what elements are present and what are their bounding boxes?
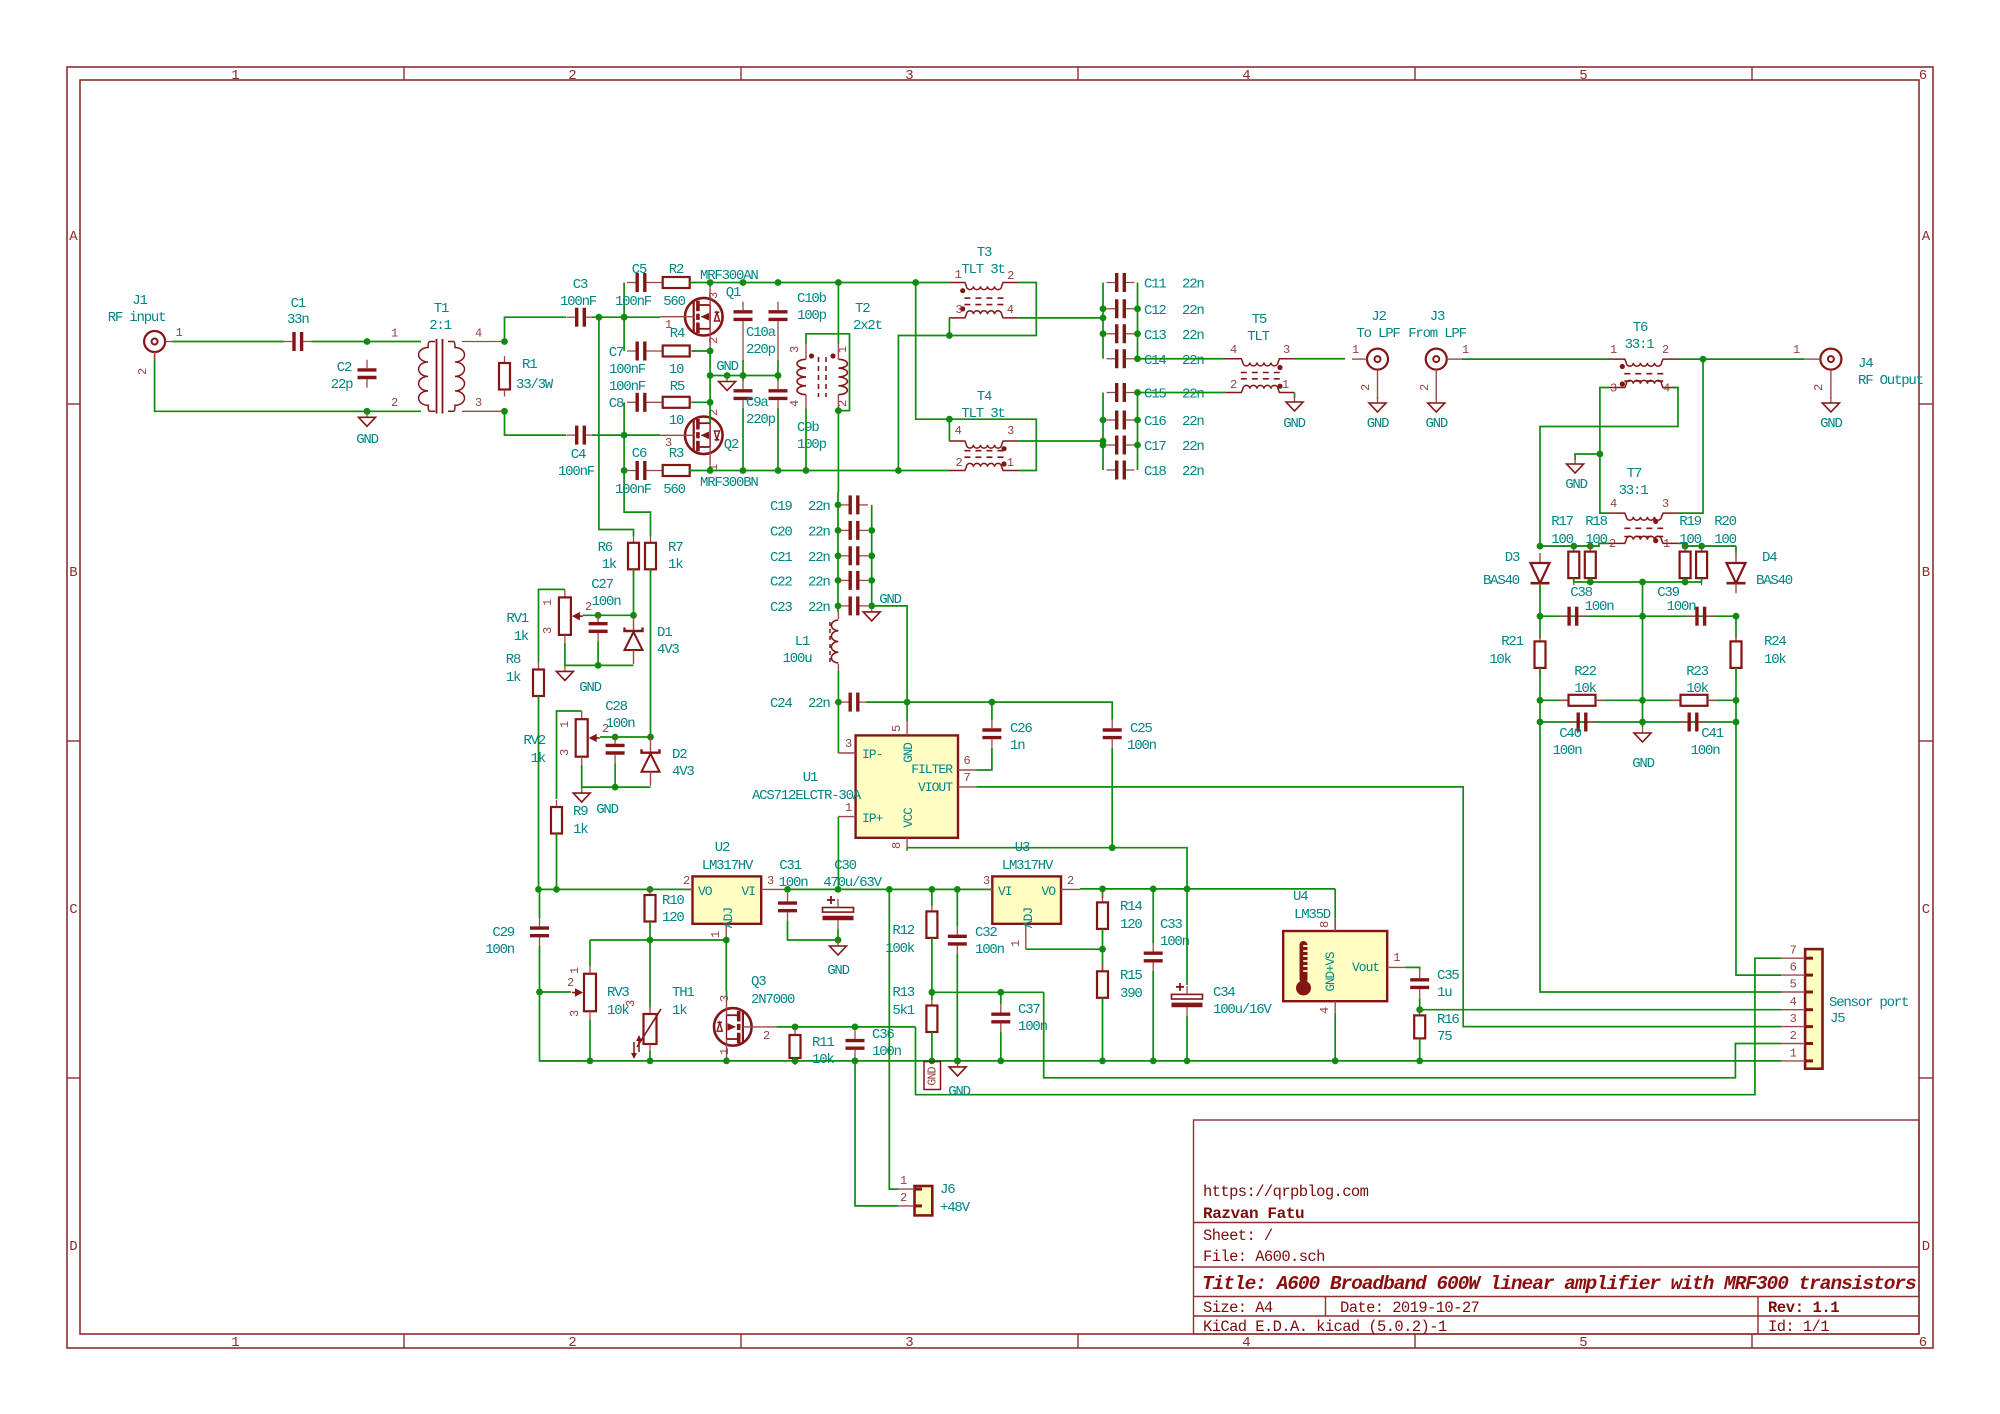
svg-text:1: 1 — [391, 327, 398, 341]
J5 pin 7 lead — [1781, 957, 1805, 959]
resistor R11 — [790, 1028, 801, 1065]
svg-text:1: 1 — [718, 1048, 732, 1055]
wire C33 top — [1152, 889, 1154, 943]
svg-text:T6: T6 — [1633, 320, 1648, 336]
svg-text:3: 3 — [905, 1335, 913, 1351]
svg-text:100n: 100n — [1127, 738, 1157, 754]
potentiometer RV1 — [559, 589, 583, 643]
svg-text:GND: GND — [948, 1084, 970, 1100]
resistor R13 — [926, 999, 937, 1040]
svg-text:1: 1 — [176, 326, 183, 340]
capacitor C21 — [840, 546, 868, 565]
svg-text:R3: R3 — [669, 446, 684, 462]
node rail T2 feed — [835, 279, 842, 286]
wire RV3 wiper from C29 column — [540, 991, 572, 993]
svg-text:C22: C22 — [770, 574, 792, 590]
node C6 tap — [621, 467, 628, 474]
wire L1 leads — [837, 612, 839, 619]
wire T7 pin1 to right detector rail — [1678, 543, 1736, 546]
svg-text:R24: R24 — [1764, 634, 1786, 650]
svg-text:1: 1 — [1663, 537, 1670, 551]
wire IP+ pin1 down to supply rail — [837, 817, 839, 890]
svg-text:1k: 1k — [514, 629, 529, 645]
svg-text:560: 560 — [663, 482, 685, 498]
svg-text:C14: C14 — [1144, 353, 1166, 369]
wire D4 column to R24 — [1735, 616, 1737, 638]
svg-text:C16: C16 — [1144, 414, 1166, 430]
svg-text:10k: 10k — [812, 1052, 834, 1068]
svg-text:33/3W: 33/3W — [516, 377, 554, 393]
ground detector center — [1634, 727, 1651, 742]
node T6 pin3 gnd tap — [1597, 451, 1604, 458]
node D3 top rail — [1537, 543, 1544, 550]
svg-text:T3: T3 — [977, 245, 992, 261]
svg-text:2: 2 — [1790, 1029, 1797, 1043]
connector J5 sensor port body — [1805, 949, 1822, 1069]
wire Q3 gate row down to J5 pin7 line — [916, 958, 1782, 1094]
U2 pin2 lead — [684, 888, 693, 890]
wire R21 bottom to R22 row — [1539, 668, 1541, 700]
svg-text:6: 6 — [1919, 1335, 1927, 1351]
node rail C9a — [740, 467, 747, 474]
J6 pin1 lead — [898, 1188, 915, 1190]
svg-text:1k: 1k — [506, 670, 521, 686]
svg-text:100u/16V: 100u/16V — [1213, 1002, 1272, 1018]
svg-text:D3: D3 — [1505, 550, 1520, 566]
svg-text:4: 4 — [1230, 343, 1237, 357]
ground at C23 bus — [863, 606, 880, 621]
wire R13 row to C37 and J5 pin2 drop — [932, 991, 1044, 993]
connector J6 body — [915, 1186, 933, 1215]
svg-text:R9: R9 — [573, 804, 588, 820]
svg-text:3: 3 — [665, 436, 672, 450]
wire T6 pin2 to J4 — [1678, 358, 1805, 360]
svg-text:22n: 22n — [1182, 414, 1204, 430]
wire T5 pin1 to ground — [1294, 393, 1296, 399]
svg-text:C40: C40 — [1559, 726, 1581, 742]
node C3 out B — [621, 314, 628, 321]
IC U1 ACS712ELCTR-30A body — [856, 735, 958, 837]
svg-text:GND: GND — [879, 592, 901, 608]
svg-text:2: 2 — [568, 68, 576, 84]
wire C11-C14 left bus — [1102, 283, 1104, 359]
node R22 left — [1537, 697, 1544, 704]
svg-text:2: 2 — [1609, 537, 1616, 551]
resistor R24 — [1731, 634, 1742, 675]
U2 pin1 ADJ lead — [725, 924, 727, 940]
capacitor C14 — [1107, 349, 1135, 368]
wire J6 pin2 to gnd rail — [855, 1061, 898, 1206]
wire C3 node to Q1 gate — [592, 316, 660, 318]
wire Q1 gate vertical to C5/C7 — [623, 283, 625, 318]
node C41 right — [1733, 719, 1740, 726]
capacitor C26 — [982, 720, 1001, 748]
U3 pin2 lead — [1061, 888, 1080, 890]
svg-text:1: 1 — [1393, 951, 1400, 965]
wire T6 pin4 to detector rail — [1540, 388, 1678, 547]
U2 pin3 lead — [761, 888, 787, 890]
wire R4 to Q1 source node — [692, 350, 710, 352]
J5 pin 1 lead — [1781, 1060, 1805, 1062]
wire T2 pin1 feed from rail — [837, 283, 839, 345]
svg-text:C25: C25 — [1130, 721, 1152, 737]
svg-text:100p: 100p — [797, 437, 827, 453]
wire right detector rail — [1687, 545, 1736, 547]
transformer T5 — [1226, 359, 1295, 393]
node R19 top — [1682, 543, 1689, 550]
svg-text:T7: T7 — [1627, 466, 1642, 482]
U4 thermometer icon — [1296, 941, 1311, 996]
transistor Q3 2N7000 — [714, 997, 776, 1057]
node C26 branch — [989, 699, 996, 706]
svg-text:2: 2 — [707, 337, 721, 344]
wire U4 pin4 to gnd — [1334, 1013, 1336, 1061]
wire FILTER to C26 — [976, 748, 992, 770]
wire RV3 pin1 from ADJ rail — [589, 940, 591, 966]
svg-text:R17: R17 — [1551, 514, 1573, 530]
wire right bus to C24 column — [872, 606, 907, 702]
svg-text:4: 4 — [955, 424, 962, 438]
svg-text:R23: R23 — [1686, 664, 1708, 680]
resistor R2 — [655, 277, 698, 288]
svg-text:2: 2 — [955, 456, 962, 470]
J5 pin 4 lead — [1781, 1009, 1805, 1011]
svg-text:3: 3 — [955, 303, 962, 317]
capacitor C17 — [1107, 436, 1135, 455]
svg-text:TLT: TLT — [1247, 329, 1269, 345]
node C40 right — [1639, 719, 1646, 726]
svg-text:C18: C18 — [1144, 464, 1166, 480]
svg-text:A: A — [69, 229, 78, 245]
node GND stub — [724, 372, 731, 379]
wire R9 bottom to supply rail — [556, 833, 558, 889]
svg-text:To LPF: To LPF — [1356, 326, 1400, 342]
T5 polarity dots — [1277, 365, 1282, 370]
svg-text:C33: C33 — [1160, 917, 1182, 933]
wire R22/R23 row — [1540, 699, 1736, 701]
svg-text:C3: C3 — [573, 277, 588, 293]
resistor R10 — [645, 888, 656, 929]
wire gnd stub at T6/T7 link — [1575, 454, 1600, 460]
svg-text:22n: 22n — [1182, 277, 1204, 293]
svg-text:220p: 220p — [746, 342, 776, 358]
ground below C30 — [830, 940, 847, 955]
wire C36 bottom — [854, 1058, 856, 1061]
svg-text:100: 100 — [1585, 532, 1607, 548]
J5 pin 6 lead — [1781, 974, 1805, 976]
svg-text:C31: C31 — [779, 858, 801, 874]
svg-text:C10a: C10a — [746, 325, 776, 341]
wire VO rail left of U2 — [539, 888, 693, 890]
wire C24 right lead to junction — [866, 701, 907, 703]
capacitor C27 — [589, 614, 608, 642]
svg-text:C34: C34 — [1213, 985, 1235, 1001]
wire J1 pin2 down to ground rail — [155, 354, 363, 412]
capacitor C40 — [1568, 713, 1596, 732]
svg-text:1u: 1u — [1437, 985, 1452, 1001]
svg-text:22n: 22n — [808, 600, 830, 616]
svg-text:100n: 100n — [1585, 599, 1615, 615]
svg-text:Q1: Q1 — [726, 285, 741, 301]
wire RV1 gnd row — [565, 643, 634, 665]
svg-text:R21: R21 — [1501, 634, 1523, 650]
wire U3 ADJ to R14/R15 node — [1026, 948, 1103, 950]
svg-text:R18: R18 — [1585, 514, 1607, 530]
wire T2 pin4 to bottom rail — [805, 409, 807, 471]
wire R14 bottom — [1102, 929, 1104, 971]
svg-text:R2: R2 — [669, 262, 684, 278]
svg-text:T2: T2 — [855, 301, 870, 317]
wire center column down — [1642, 582, 1644, 727]
wire U1 VCC to 5V rail — [906, 848, 908, 849]
wire C9b bottom to rail — [777, 408, 779, 471]
svg-text:4V3: 4V3 — [672, 764, 694, 780]
node C27 bottom — [595, 662, 602, 669]
svg-text:Vout: Vout — [1352, 960, 1379, 975]
svg-text:470u/63V: 470u/63V — [823, 875, 882, 891]
svg-text:100n: 100n — [485, 942, 515, 958]
svg-text:2x2t: 2x2t — [853, 318, 882, 334]
wire VIOUT to sensor port pin3 — [976, 787, 1781, 1027]
wire C27 bottom — [597, 642, 599, 666]
node C33 top — [1150, 886, 1157, 893]
node C37 gnd — [997, 1058, 1004, 1065]
wire D3 to C38 row — [1539, 585, 1541, 616]
node C15 to T5 — [1134, 389, 1141, 396]
svg-text:1: 1 — [1009, 940, 1023, 947]
svg-text:U1: U1 — [803, 770, 818, 786]
node C39 right — [1733, 613, 1740, 620]
node TH1 gnd — [647, 1058, 654, 1065]
svg-text:2: 2 — [568, 1335, 576, 1351]
svg-text:R11: R11 — [812, 1035, 834, 1051]
wire T3 pin3 down — [948, 318, 950, 336]
potentiometer RV3 — [572, 966, 596, 1020]
transformer T1 — [419, 342, 435, 412]
node R16 gnd — [1416, 1058, 1423, 1065]
node C2 top junction — [364, 338, 371, 345]
svg-text:C24: C24 — [770, 696, 792, 712]
node R1 top — [501, 338, 508, 345]
title block outline — [1194, 1120, 1920, 1334]
svg-text:10: 10 — [669, 362, 684, 378]
svg-text:ADJ: ADJ — [1021, 908, 1036, 929]
svg-text:1: 1 — [900, 1174, 907, 1188]
svg-text:1: 1 — [665, 318, 672, 332]
svg-text:LM317HV: LM317HV — [702, 858, 754, 874]
svg-text:7: 7 — [963, 771, 970, 785]
capacitor C41 — [1679, 713, 1707, 732]
resistor R15 — [1097, 964, 1108, 1005]
svg-text:100n: 100n — [592, 594, 622, 610]
svg-text:GND: GND — [1283, 416, 1305, 432]
svg-text:C32: C32 — [975, 925, 997, 941]
svg-text:RV1: RV1 — [506, 611, 528, 627]
capacitor C9b — [769, 381, 788, 409]
svg-text:C4: C4 — [571, 447, 586, 463]
wire T4 pin4 up to node — [948, 419, 950, 441]
U1 pin1 lead — [838, 816, 855, 818]
wire C37 top stub — [1000, 992, 1002, 1004]
svg-text:BAS40: BAS40 — [1483, 573, 1520, 589]
node C33 gnd — [1150, 1058, 1157, 1065]
svg-text:L1: L1 — [795, 634, 810, 650]
svg-text:GND: GND — [716, 359, 738, 375]
svg-text:GND: GND — [579, 680, 601, 696]
wire R1 top to C3 row — [505, 317, 567, 341]
svg-text:1k: 1k — [672, 1003, 687, 1019]
wire R17-R20 bottoms ground row — [1574, 581, 1702, 583]
node C35/R16 tap — [1416, 1006, 1423, 1013]
svg-text:R10: R10 — [662, 893, 684, 909]
svg-text:C30: C30 — [834, 858, 856, 874]
transformer T7 — [1609, 513, 1678, 543]
svg-text:4: 4 — [1318, 1007, 1332, 1014]
wire T1 pin4 to R1 top node — [462, 341, 505, 343]
svg-text:TH1: TH1 — [672, 985, 694, 1001]
node rail C10a — [740, 279, 747, 286]
wire R15 bottom to gnd — [1102, 998, 1104, 1061]
svg-text:C21: C21 — [770, 550, 792, 566]
svg-text:D: D — [69, 1239, 77, 1255]
svg-text:3: 3 — [905, 68, 913, 84]
zener D2 — [642, 737, 660, 786]
node Q2 source / R5 — [707, 399, 714, 406]
svg-text:C28: C28 — [605, 699, 627, 715]
svg-text:R5: R5 — [670, 379, 685, 395]
node wiper tap — [536, 989, 543, 996]
svg-text:22p: 22p — [331, 377, 353, 393]
svg-text:GND+VS: GND+VS — [1324, 952, 1338, 992]
svg-text:22n: 22n — [1182, 328, 1204, 344]
svg-text:1: 1 — [1793, 343, 1800, 357]
svg-text:Title: A600 Broadband 600W lin: Title: A600 Broadband 600W linear amplif… — [1202, 1273, 1916, 1295]
svg-text:C20: C20 — [770, 524, 792, 540]
svg-text:1k: 1k — [531, 751, 546, 767]
wire C14 row to T5 pin4 — [1138, 358, 1226, 360]
inductor L1 — [831, 620, 838, 663]
wire D4 feed — [1735, 546, 1737, 553]
node C10a bottom — [740, 372, 747, 379]
svg-text:U3: U3 — [1015, 840, 1030, 856]
node D2 top / R7 bottom — [647, 734, 654, 741]
ground at C2 — [359, 411, 376, 426]
svg-text:390: 390 — [1120, 986, 1142, 1002]
svg-text:C12: C12 — [1144, 303, 1166, 319]
svg-text:C5: C5 — [632, 262, 647, 278]
capacitor C13 — [1107, 324, 1135, 343]
svg-text:J1: J1 — [132, 293, 147, 309]
wire T7 pin3 up to J4 line — [1678, 359, 1703, 513]
svg-text:100nF: 100nF — [560, 294, 597, 310]
node rail C9b — [775, 467, 782, 474]
svg-text:BAS40: BAS40 — [1756, 573, 1793, 589]
node Q1 source / R4 — [707, 348, 714, 355]
capacitor C29 — [530, 918, 549, 946]
svg-text:Id: 1/1: Id: 1/1 — [1768, 1318, 1829, 1336]
capacitor C33 — [1144, 943, 1163, 971]
svg-text:GND: GND — [927, 1066, 940, 1085]
capacitor C6 — [627, 461, 655, 480]
svg-text:R8: R8 — [506, 652, 521, 668]
svg-text:C2: C2 — [337, 360, 352, 376]
svg-text:1k: 1k — [668, 557, 683, 573]
transformer T3 — [949, 283, 1018, 318]
node C3 out A — [596, 314, 603, 321]
svg-text:6: 6 — [963, 754, 970, 768]
wire C24 row to C26/C25 branches — [907, 702, 1112, 720]
svg-text:C9b: C9b — [797, 420, 819, 436]
capacitor C28 — [606, 735, 625, 763]
wire J6 pin1 feed from +48V rail — [889, 889, 898, 1189]
wire Q2 gate vertical C8-C6-R7feed — [623, 402, 625, 435]
wire top rail branch down to T4 node — [916, 283, 950, 420]
wire Q2 drain to bottom rail — [709, 466, 711, 471]
svg-text:100nF: 100nF — [615, 294, 652, 310]
svg-text:https://qrpblog.com: https://qrpblog.com — [1203, 1183, 1369, 1201]
svg-text:2: 2 — [1359, 384, 1373, 391]
svg-text:GND: GND — [902, 743, 916, 763]
svg-text:22n: 22n — [808, 524, 830, 540]
svg-text:1: 1 — [709, 931, 723, 938]
svg-text:FILTER: FILTER — [911, 762, 953, 777]
node C10b bottom — [775, 372, 782, 379]
capacitor C15 — [1107, 383, 1135, 402]
wire R13 top stub — [931, 992, 933, 1000]
svg-text:C6: C6 — [632, 446, 647, 462]
svg-text:VO: VO — [698, 884, 713, 899]
resistor R17 — [1568, 545, 1579, 586]
svg-text:100nF: 100nF — [558, 464, 595, 480]
svg-text:120: 120 — [662, 910, 684, 926]
capacitor C5 — [627, 273, 655, 292]
node T7 pin3 branch — [1700, 356, 1707, 363]
svg-text:1: 1 — [1610, 343, 1617, 357]
node C40 left — [1537, 719, 1544, 726]
resistor R16 — [1414, 1008, 1425, 1045]
U4 pin4 lead — [1334, 1001, 1336, 1015]
svg-text:D4: D4 — [1762, 550, 1777, 566]
wire R13 bottom to gnd rail — [931, 1032, 933, 1061]
capacitor C9a — [734, 381, 753, 409]
wire C40/C41 row — [1539, 700, 1541, 722]
wire RV2 gnd row — [582, 765, 651, 787]
svg-text:1: 1 — [845, 801, 852, 815]
wire TH1 top from ADJ rail — [649, 940, 651, 1007]
svg-text:2: 2 — [136, 368, 150, 375]
svg-text:8: 8 — [1318, 921, 1332, 928]
node C32 gnd — [954, 1058, 961, 1065]
svg-text:Sheet: /: Sheet: / — [1203, 1227, 1273, 1245]
svg-text:3: 3 — [558, 749, 572, 756]
wire C24 to IP- pin3 — [837, 702, 839, 753]
T7 polarity dots — [1653, 519, 1658, 524]
ground RV2 row — [573, 787, 590, 802]
svg-text:C15: C15 — [1144, 387, 1166, 403]
resistor R5 — [655, 397, 698, 408]
wire T4 pin1 step up to node — [949, 419, 1036, 470]
wire C32 top — [956, 889, 958, 926]
capacitor C30 electrolytic — [823, 896, 854, 929]
svg-text:22n: 22n — [1182, 303, 1204, 319]
svg-text:B: B — [1922, 565, 1930, 581]
wire C24 left junction — [837, 688, 839, 702]
svg-text:J2: J2 — [1371, 309, 1386, 325]
wire T3 pin4 to C13 bus — [1018, 317, 1103, 319]
svg-text:22n: 22n — [808, 574, 830, 590]
resistor R9 — [551, 800, 562, 841]
wire Q1 drain to top rail — [709, 283, 711, 288]
